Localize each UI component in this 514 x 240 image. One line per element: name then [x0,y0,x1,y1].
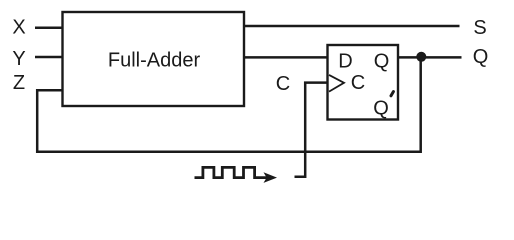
svg-text:X: X [12,17,25,39]
D flip-flop U2 [328,45,399,120]
junction dot Q node [416,52,426,62]
wire clock to C input [295,83,328,177]
wire adder carry to D [244,56,328,59]
clock edge triangle [329,75,344,92]
svg-text:Q: Q [473,46,489,68]
wire X input [35,26,63,29]
svg-text:C: C [276,73,290,95]
svg-text:Q: Q [374,51,390,73]
svg-text:D: D [338,51,352,73]
wire Q output [398,56,462,59]
svg-text:S: S [473,17,486,39]
clock arrowhead [264,172,278,183]
clock pulse waveform [195,167,268,177]
svg-text:Full-Adder: Full-Adder [108,49,201,71]
svg-text:Q: Q [373,98,389,120]
wire feedback Q to Z [37,57,421,151]
svg-text:Y: Y [12,48,25,70]
svg-text:C: C [351,72,365,94]
wire S output [244,25,460,28]
svg-text:Z: Z [13,72,25,94]
wire Y input [35,56,63,59]
full-adder block U1 [63,12,245,106]
